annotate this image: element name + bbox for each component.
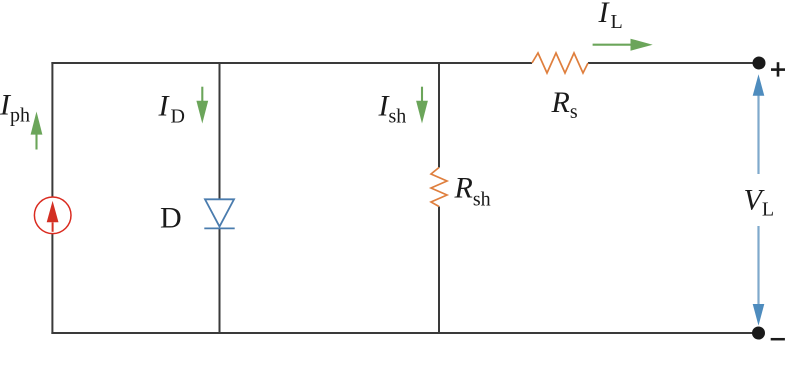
wire diode branch lower xyxy=(219,228,221,334)
diode D xyxy=(204,199,234,228)
wire shunt branch upper xyxy=(438,62,440,168)
green arrow I_L (right) xyxy=(593,39,653,51)
green arrow I_ph (up) xyxy=(31,112,43,150)
wire shunt branch lower xyxy=(438,207,440,335)
green arrow I_D (down) xyxy=(196,87,208,124)
plus sign xyxy=(771,62,785,76)
wire left vertical upper xyxy=(51,62,53,197)
svg-text:D: D xyxy=(160,202,182,235)
V_L arrow lower segment xyxy=(753,226,765,326)
node dot top-right xyxy=(753,57,766,70)
V_L arrow upper segment xyxy=(753,74,765,174)
minus sign xyxy=(771,338,785,341)
wire top horizontal left part xyxy=(51,62,532,64)
wire bottom horizontal xyxy=(51,332,758,334)
node dot bottom-right xyxy=(752,327,765,340)
wire left vertical lower xyxy=(51,233,53,334)
wire top horizontal right part xyxy=(588,62,759,64)
resistor R_sh xyxy=(431,168,447,207)
current source I_ph circle xyxy=(34,197,71,234)
wire diode branch upper xyxy=(219,62,221,199)
green arrow I_sh (down) xyxy=(416,87,428,124)
resistor R_s xyxy=(532,53,588,73)
current source arrow xyxy=(47,201,59,232)
